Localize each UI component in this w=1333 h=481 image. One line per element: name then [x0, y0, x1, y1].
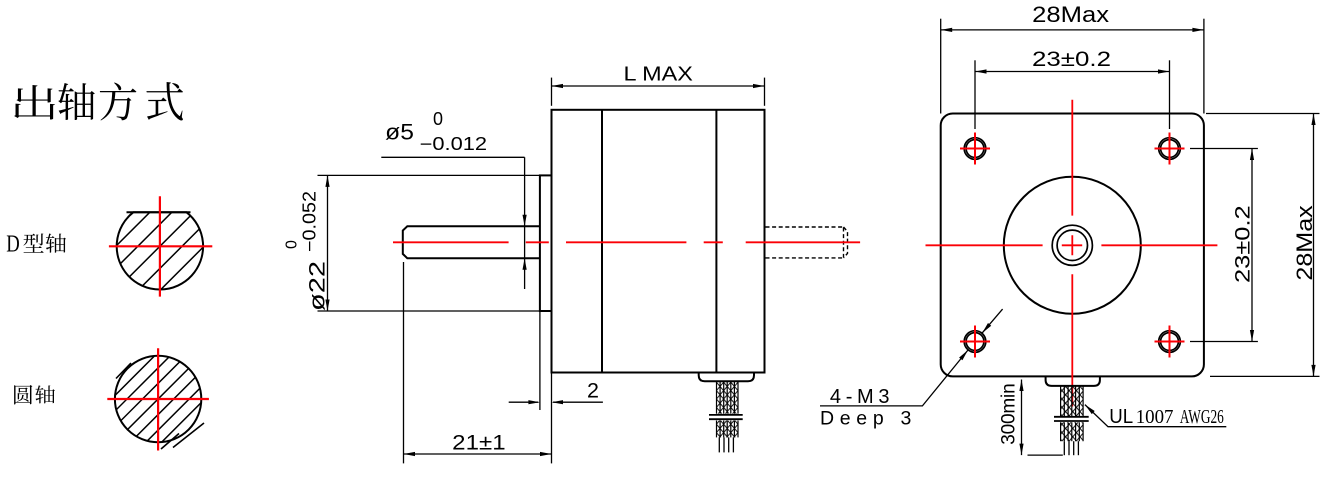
- svg-text:300min: 300min: [999, 383, 1020, 445]
- svg-text:21±1: 21±1: [452, 430, 505, 454]
- svg-text:ø5: ø5: [385, 120, 414, 145]
- svg-text:1007: 1007: [1136, 406, 1174, 428]
- svg-text:0: 0: [284, 240, 301, 249]
- svg-text:ø22: ø22: [305, 261, 330, 311]
- svg-text:Deep 3: Deep 3: [820, 408, 911, 430]
- svg-text:0: 0: [433, 109, 443, 129]
- svg-text:28Max: 28Max: [1032, 2, 1109, 27]
- svg-text:D: D: [6, 232, 19, 258]
- svg-text:−0.052: −0.052: [300, 191, 320, 252]
- svg-text:4-M3: 4-M3: [830, 386, 890, 408]
- svg-text:−0.012: −0.012: [420, 134, 488, 154]
- svg-text:AWG26: AWG26: [1180, 407, 1224, 428]
- svg-text:2: 2: [587, 379, 599, 403]
- svg-text:23±0.2: 23±0.2: [1032, 48, 1111, 71]
- svg-text:UL: UL: [1109, 406, 1133, 428]
- svg-text:23±0.2: 23±0.2: [1232, 205, 1255, 283]
- svg-text:L MAX: L MAX: [624, 64, 693, 86]
- svg-text:28Max: 28Max: [1292, 205, 1317, 280]
